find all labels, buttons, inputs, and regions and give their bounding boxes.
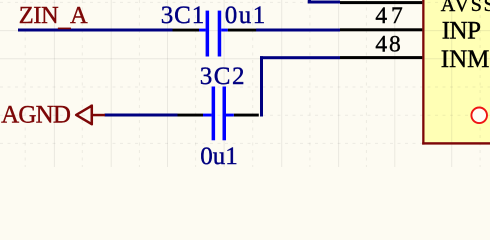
- svg-text:0u1: 0u1: [200, 143, 238, 167]
- svg-text:3C1: 3C1: [161, 2, 205, 29]
- svg-text:3C2: 3C2: [200, 63, 245, 90]
- svg-text:0u1: 0u1: [225, 2, 266, 29]
- svg-text:ZIN_A: ZIN_A: [19, 2, 88, 32]
- svg-text:AGND: AGND: [1, 101, 71, 128]
- svg-text:48: 48: [375, 31, 400, 57]
- svg-text:INP: INP: [442, 17, 481, 44]
- svg-text:INM: INM: [441, 46, 490, 73]
